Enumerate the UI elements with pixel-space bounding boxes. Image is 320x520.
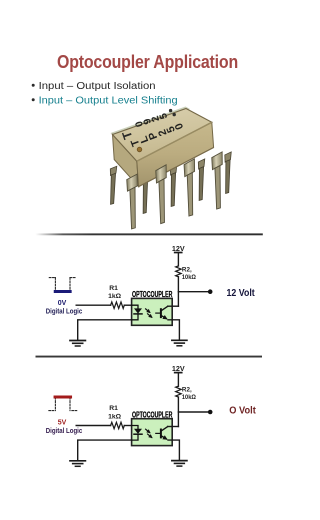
phototransistor inside U2 (156, 427, 168, 438)
wire: collector out (168, 426, 179, 428)
svg-text:Input – Output Isolation: Input – Output Isolation (39, 81, 156, 92)
resistor R2 (176, 386, 181, 397)
LED inside U1 (132, 305, 142, 320)
svg-text:Optocoupler Application: Optocoupler Application (57, 52, 238, 72)
chip left end face (113, 135, 139, 187)
phototransistor inside U1 (156, 306, 168, 317)
svg-text:12V: 12V (172, 364, 185, 373)
optocoupler U2 box (132, 419, 173, 446)
wire: R2 to node (177, 397, 179, 426)
input waveform (high pulse) (49, 397, 77, 410)
wire: R1 to box (124, 304, 131, 306)
light arrows (146, 429, 150, 432)
waveform high level (solid red) (55, 396, 71, 399)
svg-text:OPTOCOUPLER: OPTOCOUPLER (132, 410, 173, 419)
waveform low level (solid navy) (55, 290, 70, 293)
svg-text:0V: 0V (58, 300, 67, 307)
optocoupler U1 box (132, 298, 173, 325)
chip top/front bevel edge (137, 122, 212, 161)
wire: R1 to box (124, 425, 131, 427)
ground (emitter side) (172, 461, 187, 467)
resistor R1 (111, 422, 125, 428)
svg-text:R1: R1 (109, 405, 118, 412)
output node dot (208, 410, 213, 415)
wire: output branch (178, 291, 207, 293)
chip back leg behind pin 4 (198, 159, 205, 201)
svg-text:O Volt: O Volt (229, 406, 256, 417)
wire: emitter out to ground (168, 440, 179, 460)
chip pin1 dimple (137, 147, 142, 152)
chip back leg behind pin 3 (170, 165, 177, 207)
chip front leg pin 1 (127, 174, 139, 229)
svg-text:12V: 12V (172, 244, 185, 253)
chip front face (137, 122, 214, 186)
chip front leg pin 4 (212, 152, 225, 209)
svg-text:10kΩ: 10kΩ (182, 394, 196, 401)
wire: R2 to node (177, 277, 179, 306)
optocoupler chip photo (DIP-8 TLP250) (109, 107, 231, 230)
wire: emitter out to ground (168, 320, 179, 340)
svg-text:OPTOCOUPLER: OPTOCOUPLER (132, 290, 173, 299)
resistor R2 (176, 266, 181, 277)
svg-text:R1: R1 (109, 285, 118, 292)
chip top face (113, 109, 212, 162)
svg-text:Input – Output Level Shifting: Input – Output Level Shifting (39, 95, 178, 106)
12V rail bar (175, 372, 182, 374)
wire: rail to R2 (177, 373, 179, 387)
ground (emitter side) (172, 340, 187, 346)
wire: output branch (178, 411, 207, 413)
chip leg A (back row, far left) (109, 166, 117, 205)
chip back leg behind pin 2 (142, 172, 149, 214)
chip marking colon dots (169, 109, 172, 112)
svg-text:1kΩ: 1kΩ (108, 413, 122, 420)
wire: input top (76, 304, 110, 306)
title: Optocoupler Application (57, 52, 238, 72)
chip Toshiba logo (119, 129, 135, 141)
chip body bottom shadow edge (139, 148, 214, 187)
wire: input bottom (78, 440, 132, 460)
separator line 1 (36, 233, 263, 235)
ground (input side) (70, 341, 85, 347)
chip back leg behind pin 5 (224, 152, 231, 194)
light arrows (146, 309, 150, 312)
resistor R1 (111, 302, 125, 308)
svg-text:5V: 5V (58, 420, 67, 427)
LED inside U2 (132, 426, 142, 441)
input waveform (low pulse) (49, 278, 76, 292)
wire: input bottom (78, 320, 132, 340)
output node dot (208, 289, 213, 294)
svg-text:Digital Logic: Digital Logic (46, 309, 83, 316)
bullet 2: Input - Output Level Shifting (32, 95, 178, 106)
svg-text:R2,: R2, (182, 266, 192, 273)
separator line 2 (36, 356, 263, 358)
svg-text:R2,: R2, (182, 387, 192, 394)
ground (input side) (70, 461, 85, 467)
svg-text:Digital Logic: Digital Logic (46, 428, 83, 435)
chip back shadow (111, 107, 191, 137)
wire: collector out (168, 305, 179, 307)
svg-text:12 Volt: 12 Volt (227, 288, 256, 299)
chip front leg pin 3 (184, 159, 197, 216)
12V rail bar (175, 252, 182, 254)
wire: input top (76, 425, 110, 427)
wire: rail to R2 (177, 253, 179, 266)
chip front leg pin 2 (156, 165, 169, 224)
chip marking TLP250 (128, 117, 187, 148)
svg-text:1kΩ: 1kΩ (108, 293, 122, 300)
bullet 1: Input - Output Isolation (32, 81, 156, 92)
svg-text:10kΩ: 10kΩ (182, 274, 196, 281)
chip marking 0925 (133, 109, 171, 128)
